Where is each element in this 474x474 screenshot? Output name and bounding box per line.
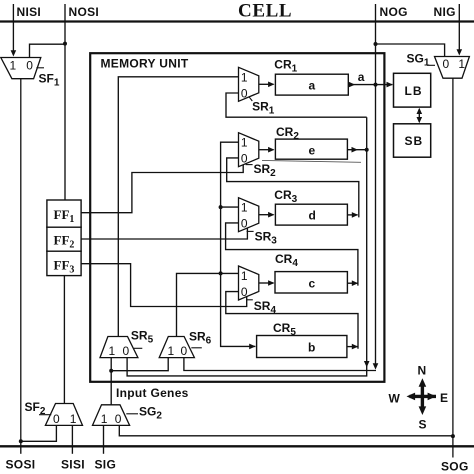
wire a from CR1 to LB xyxy=(348,84,392,86)
svg-text:S: S xyxy=(419,418,427,432)
wire CR3 output xyxy=(347,214,357,216)
mux SG1 xyxy=(435,57,470,79)
cell top border xyxy=(0,20,474,22)
svg-text:SR1: SR1 xyxy=(252,100,275,117)
node bus-SR4 junction xyxy=(219,271,223,275)
register FF1 xyxy=(47,200,81,227)
node SOSI-SF2 junction xyxy=(19,439,23,443)
svg-text:MEMORY UNIT: MEMORY UNIT xyxy=(101,57,189,71)
wire SG2 pin0 from SOG xyxy=(119,425,453,435)
wire SF1 output to SOSI xyxy=(20,79,22,446)
svg-text:1: 1 xyxy=(70,412,77,426)
svg-text:SR5: SR5 xyxy=(131,329,154,346)
svg-text:E: E xyxy=(440,391,448,405)
wire NISI input xyxy=(12,4,14,52)
svg-text:1: 1 xyxy=(10,58,17,72)
wire SR2 feedback loop to CR3 xyxy=(227,158,359,218)
label SF1 leader xyxy=(36,67,44,69)
wire SR6 pin0 from gene a xyxy=(184,358,376,371)
svg-text:0: 0 xyxy=(181,344,188,358)
arrowhead into CR4 xyxy=(268,280,274,286)
svg-text:SOSI: SOSI xyxy=(6,458,36,472)
label SR3 leader xyxy=(247,230,254,232)
svg-text:SR2: SR2 xyxy=(254,162,277,179)
register FF3 xyxy=(47,251,81,275)
wire SR5 output to SR1 pin1 xyxy=(118,77,238,337)
mux SF1 xyxy=(1,58,41,79)
wire SG2 output bus to SR5/SR6 pin1 xyxy=(111,358,168,405)
label SR6 leader xyxy=(191,347,202,349)
svg-text:1: 1 xyxy=(458,57,465,71)
svg-text:CR4: CR4 xyxy=(275,252,298,269)
arrowhead into SF1 pin1 xyxy=(11,50,17,56)
wire SR2 out to CR2 xyxy=(259,149,274,151)
svg-text:CELL: CELL xyxy=(238,1,292,22)
label SR4 leader xyxy=(246,299,253,301)
svg-text:1: 1 xyxy=(241,70,248,84)
wire FF2 output to SR3 select xyxy=(81,228,247,239)
svg-text:0: 0 xyxy=(241,217,248,231)
label SR2 leader xyxy=(246,164,253,166)
wire CR2 output down to SR5 pin0 xyxy=(127,117,367,376)
mux SR5 xyxy=(100,337,138,358)
wire FF1 output to SR2 select xyxy=(81,165,243,213)
svg-text:SIG: SIG xyxy=(95,458,117,472)
mux SR6 xyxy=(159,337,194,358)
arrowhead a mid xyxy=(349,82,355,88)
node CR2 output junction xyxy=(365,148,369,152)
register CR5 xyxy=(257,336,347,358)
mux SR1 xyxy=(239,67,259,101)
wire SR1 feedback loop from CR2 xyxy=(226,93,367,117)
node SOG-SG2 junction xyxy=(451,434,455,438)
arrowhead CR4 out xyxy=(352,280,358,286)
svg-text:SG2: SG2 xyxy=(139,404,162,421)
label SG2 leader xyxy=(126,413,138,415)
svg-text:1: 1 xyxy=(241,136,248,150)
svg-text:1: 1 xyxy=(101,412,108,426)
label SG1 leader xyxy=(427,64,435,66)
svg-text:0: 0 xyxy=(115,412,122,426)
svg-text:1: 1 xyxy=(241,269,248,283)
node NOSI junction xyxy=(63,42,67,46)
svg-text:0: 0 xyxy=(241,86,248,100)
svg-text:a: a xyxy=(309,78,316,92)
svg-text:0: 0 xyxy=(241,285,248,299)
svg-text:a: a xyxy=(358,70,365,84)
mux SR3 xyxy=(239,198,259,232)
wire SR3 pin1 branch xyxy=(221,206,239,208)
arrowhead into CR3 xyxy=(268,212,274,218)
register CR1 xyxy=(275,74,348,95)
cell bottom border xyxy=(0,445,474,447)
svg-text:SOG: SOG xyxy=(441,460,469,474)
wire LB-SB double arrow xyxy=(418,109,420,122)
register CR3 xyxy=(275,204,347,225)
svg-text:NIG: NIG xyxy=(434,5,456,19)
wire FF3-bus vertical SR2/SR3/SR4/CR5 xyxy=(221,142,256,346)
arrowhead gene-a down to SR6 line xyxy=(373,363,379,369)
svg-text:NOSI: NOSI xyxy=(69,5,100,19)
svg-text:CR3: CR3 xyxy=(274,188,297,205)
wire SF1 0-input from NOSI xyxy=(30,44,66,57)
svg-text:1: 1 xyxy=(241,201,248,215)
label SF2 leader xyxy=(39,414,51,416)
arrowhead into LB xyxy=(387,82,393,88)
register FF2 xyxy=(47,227,81,251)
wire SR1 out to CR1 xyxy=(259,83,274,85)
arrowhead into CR2 xyxy=(268,147,274,153)
node NOG-SG1 junction xyxy=(374,42,378,46)
compass rose xyxy=(407,378,437,415)
svg-text:NOG: NOG xyxy=(380,5,408,19)
svg-text:0: 0 xyxy=(241,152,248,166)
svg-text:SF2: SF2 xyxy=(25,400,46,417)
wire CR2 output xyxy=(347,149,366,151)
svg-text:SR6: SR6 xyxy=(189,330,212,347)
wire SG2 pin1 from SIG xyxy=(103,425,105,446)
mux SR4 xyxy=(239,266,259,300)
wire SR5 pin1 xyxy=(110,358,112,371)
arrowhead into CR1 xyxy=(268,82,274,88)
wire SR4 feedback loop to CR5 xyxy=(226,292,358,349)
svg-text:0: 0 xyxy=(443,57,450,71)
arrowhead CR2 line down to SR5 line xyxy=(364,361,370,367)
wire SF2 pin1 from SISI xyxy=(71,425,73,446)
arrowhead into CR5 xyxy=(249,344,255,350)
node bus-SR3 junction xyxy=(219,205,223,209)
wire SR4 out to CR4 xyxy=(259,282,274,284)
svg-text:W: W xyxy=(389,391,401,405)
wire NOG / gene a vertical xyxy=(375,4,377,365)
wire SF2 pin0 from SOSI xyxy=(21,425,57,441)
svg-text:b: b xyxy=(308,341,315,355)
wire NOSI input xyxy=(64,4,66,200)
wire SISI stub xyxy=(71,446,73,454)
wire SG1 0-input from NOG xyxy=(376,44,445,57)
node a-NOG junction xyxy=(374,83,378,87)
wire SIG stub xyxy=(103,446,105,454)
wire SR6 output to SR4 pin1 line xyxy=(177,273,239,336)
svg-text:e: e xyxy=(309,143,316,157)
svg-text:SB: SB xyxy=(405,134,424,148)
wire SG1 output to SOG xyxy=(452,78,454,457)
svg-text:CR1: CR1 xyxy=(274,58,297,75)
svg-text:N: N xyxy=(418,364,427,378)
wire SF2 output to FF3 xyxy=(63,276,65,404)
svg-text:0: 0 xyxy=(53,412,60,426)
mux SF2 xyxy=(45,404,82,426)
register CR4 xyxy=(275,272,347,293)
wire FF3 output to SR4 select xyxy=(81,264,247,307)
svg-text:0: 0 xyxy=(26,58,33,72)
arrowhead LB-SB up xyxy=(417,108,423,114)
svg-text:0: 0 xyxy=(123,344,130,358)
wire SOSI stub xyxy=(20,446,22,454)
svg-text:1: 1 xyxy=(168,344,175,358)
wire SR3 out to CR3 xyxy=(259,214,274,216)
svg-text:c: c xyxy=(309,276,316,290)
svg-text:SR3: SR3 xyxy=(255,229,278,246)
node SG2-SR5 junction xyxy=(109,369,113,373)
register CR2 xyxy=(275,139,347,159)
arrowhead into SG1 pin1 NIG xyxy=(457,49,463,55)
svg-text:SISI: SISI xyxy=(61,458,85,472)
svg-text:SF1: SF1 xyxy=(39,71,60,88)
block SB xyxy=(394,124,431,157)
memory unit box xyxy=(90,53,384,382)
svg-text:LB: LB xyxy=(405,84,423,98)
arrowhead CR3 out xyxy=(352,212,358,218)
wire CR4 output xyxy=(347,282,357,284)
svg-text:1: 1 xyxy=(109,344,116,358)
wire NIG input xyxy=(458,4,460,51)
arrowhead CR5 out xyxy=(352,344,358,350)
label SR5 leader xyxy=(134,347,143,349)
svg-text:SG1: SG1 xyxy=(407,51,430,68)
wire CR5 output xyxy=(347,346,358,348)
mux SG2 xyxy=(93,405,130,426)
wire SR3 feedback loop to CR4 xyxy=(226,223,358,286)
svg-text:d: d xyxy=(309,208,316,222)
label SR1 leader xyxy=(249,97,252,101)
arrowhead CR2 out xyxy=(352,147,358,153)
svg-text:Input Genes: Input Genes xyxy=(116,386,189,400)
mux SR2 xyxy=(239,133,259,167)
arrowhead LB-SB down xyxy=(417,117,423,123)
stray scan line under CR2 xyxy=(262,160,361,162)
svg-text:NISI: NISI xyxy=(17,5,42,19)
block LB xyxy=(394,73,431,107)
